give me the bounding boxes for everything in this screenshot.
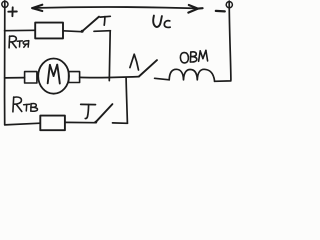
wire right brush to node and Л hinge [80, 76, 139, 79]
label Л [130, 54, 139, 70]
wire right rail [215, 1, 231, 81]
wire Rта to switch hinge [63, 30, 82, 33]
label Т (top) [100, 16, 110, 25]
field winding ОВМ coil [169, 69, 214, 81]
wire riser from Т top to armature node [108, 31, 111, 81]
junction dot hinge Т bottom [94, 121, 97, 124]
terminal + (left) [2, 1, 8, 7]
label Uc [153, 16, 170, 28]
motor M armature circle [38, 59, 69, 94]
switch Т (top) fixed contact seat [94, 30, 110, 33]
minus sign [216, 10, 225, 13]
switch Л blade [139, 60, 157, 76]
label Т (bottom) [81, 104, 96, 118]
terminal - (right) [226, 2, 232, 8]
wire Rтв to switch hinge [65, 121, 96, 123]
junction dot hinge Т top [81, 30, 84, 33]
brush box right [69, 72, 80, 83]
brush box left [25, 72, 37, 83]
resistor Rтв (field) [40, 116, 65, 131]
wire riser from Т bottom to armature node [126, 78, 127, 123]
motor letter M [48, 65, 60, 84]
label ОВМ [180, 50, 207, 63]
label Rтв [13, 97, 38, 112]
resistor Rта (armature) [35, 23, 63, 39]
voltage arrow Uc [32, 5, 202, 13]
wire bottom from rail to Rтв [5, 123, 41, 125]
wire top branch from rail to Rta [5, 29, 35, 31]
switch Т (top) blade [82, 17, 99, 32]
wire Л contact to coil [155, 78, 170, 80]
switch Т (bottom) blade [96, 104, 113, 122]
label Rта [9, 36, 29, 48]
wire rail to left brush [5, 77, 25, 79]
wire left rail [3, 1, 5, 125]
plus sign [8, 7, 16, 16]
switch Т (bottom) fixed contact seat [113, 122, 128, 124]
